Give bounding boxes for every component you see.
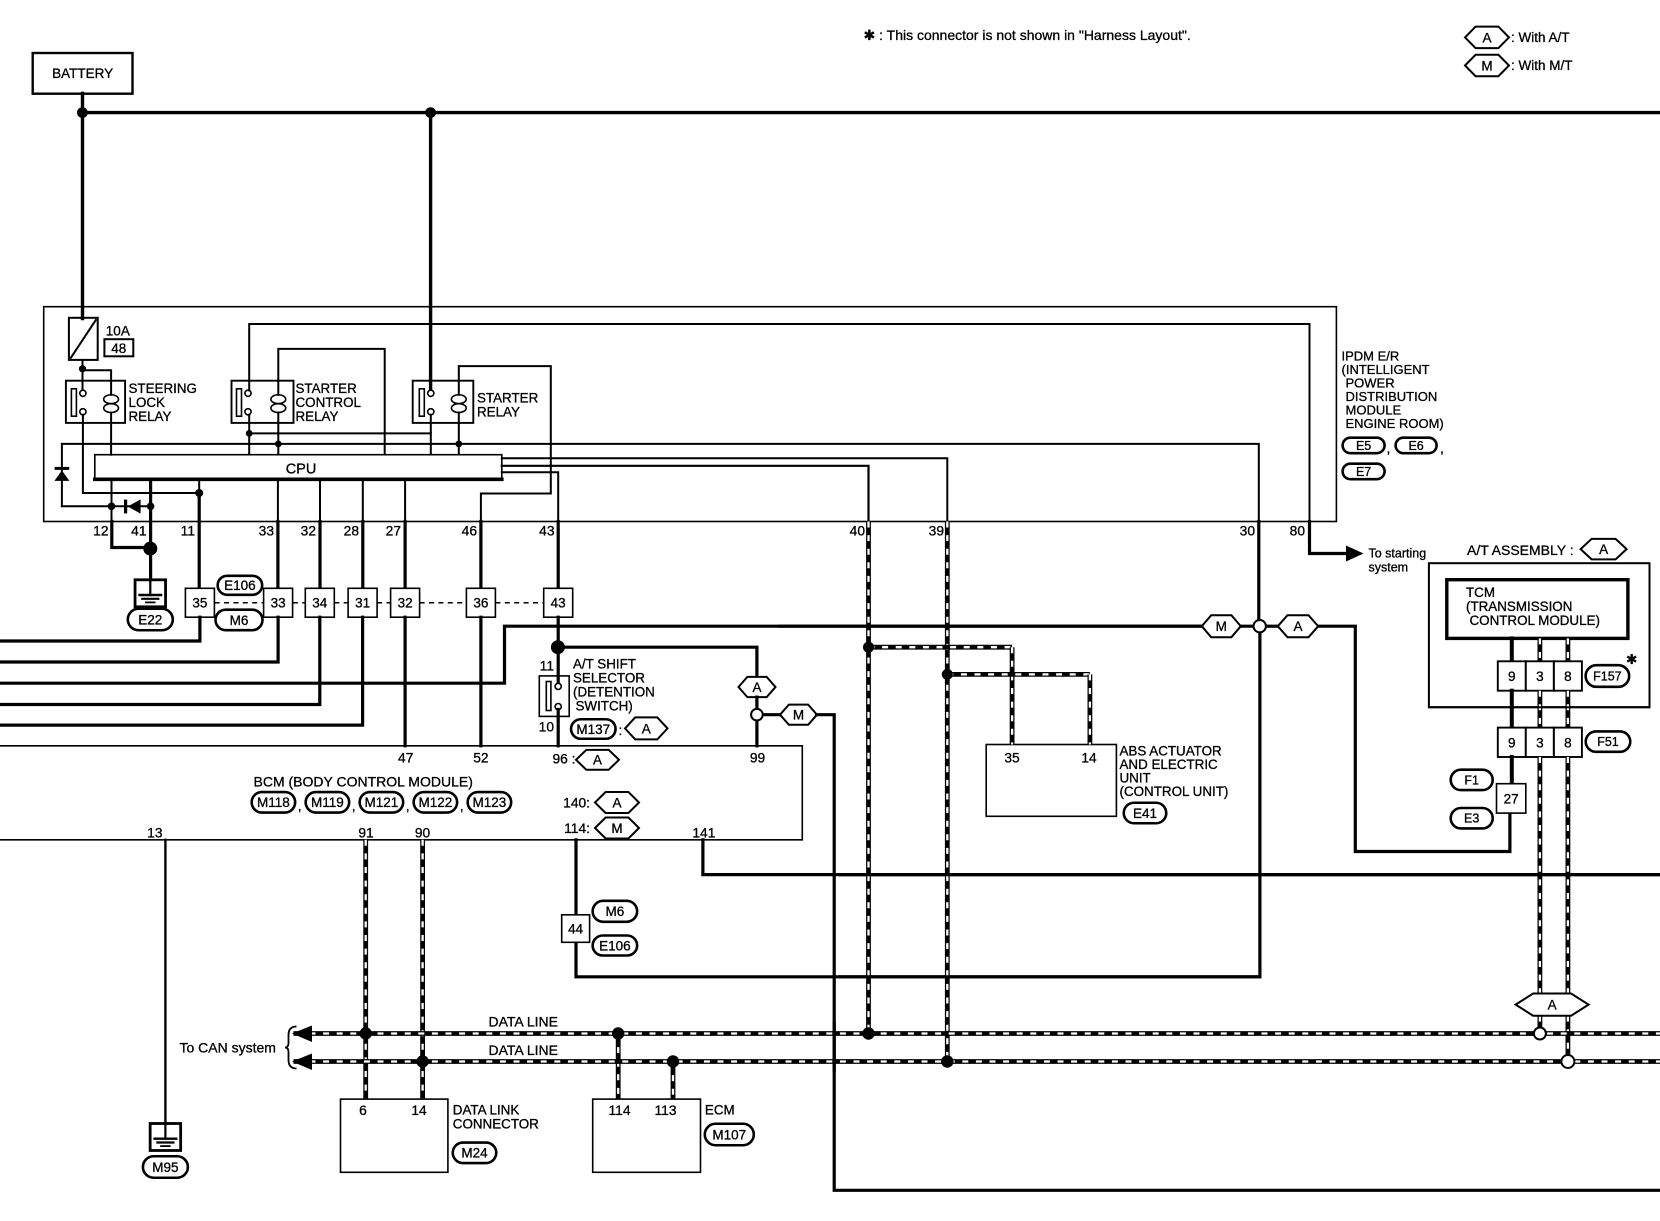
svg-text:A: A [1599,542,1608,557]
connector M6 lower [593,901,638,922]
svg-text:E7: E7 [1356,465,1371,479]
connector M121 [360,792,404,813]
connector E106 lower [593,936,638,956]
node line2 IPDM 39 [941,1055,953,1067]
wire BCM pin 13 to ground M95 [164,840,166,1124]
wire connector 33 to left [0,617,278,662]
hexagon A branch 99 [739,677,776,697]
DATA LINE 1 CAN [294,1031,1660,1036]
svg-text:DATA LINK: DATA LINK [453,1103,520,1118]
wire CPU pin 40 horizontal [502,466,869,522]
wire BCM pin 91 CAN to DLC 6 [363,840,368,1099]
svg-text:E3: E3 [1464,812,1479,826]
node line2 DLC 14 [416,1055,428,1067]
legend hexagon A = With A/T [1465,27,1509,48]
svg-text:,: , [352,798,356,814]
svg-text:90: 90 [415,826,431,841]
TCM box [1447,580,1628,639]
svg-text:system: system [1369,561,1409,575]
connector E5 [1343,438,1385,454]
svg-text:A: A [1482,30,1491,45]
wire IPDM pin 40 CAN [866,522,871,1034]
svg-text:M119: M119 [311,795,344,810]
svg-text:,: , [1387,440,1391,456]
redraw M/T branch over data lines [833,1024,836,1070]
node line1 DLC 6 [360,1027,372,1039]
svg-text:To starting: To starting [1369,547,1427,561]
arrow to CAN system line 2 [293,1054,311,1069]
svg-text:27: 27 [1504,791,1519,806]
svg-text:10: 10 [539,720,555,735]
svg-text:43: 43 [539,524,555,539]
can stub circle trunk [1254,620,1266,632]
svg-text:A: A [1293,619,1302,634]
wire pin 41 to ground E22 [149,506,152,580]
can stub circle TCM 3 on line 1 [1534,1028,1546,1040]
connector E106 top [218,576,263,595]
wire F51 pin 9 to connector 27 [1510,757,1514,784]
wire BCM pin 114 via connector 44 [576,840,1260,977]
node fuse output [82,360,84,390]
ECM box [593,1099,701,1172]
wire pin 46 to connector 36 [479,522,482,589]
svg-text:39: 39 [929,524,945,539]
svg-text:M6: M6 [606,904,625,919]
wire BCM pin 141 [703,840,1660,875]
svg-text:27: 27 [386,524,401,539]
svg-text:114: 114 [609,1103,631,1118]
wire starter control relay contact to CPU [248,415,250,455]
svg-text:44: 44 [568,922,584,937]
IPDM E/R box [44,307,1337,522]
wire BCM pin 90 CAN to DLC 14 [420,840,425,1099]
connector box 33 [264,588,293,617]
wire pin 11 to connector 35 [198,493,201,588]
svg-text:M95: M95 [152,1160,178,1175]
svg-text:14: 14 [411,1103,427,1118]
connector F157 oval [1586,665,1630,687]
svg-text:CONTROL MODULE): CONTROL MODULE) [1470,613,1600,628]
wire starter relay contact to CPU [430,415,432,455]
wire connector 36 to BCM pin 52 [479,617,482,746]
svg-text:: With A/T: : With A/T [1511,30,1570,45]
svg-text:M118: M118 [257,795,290,810]
connector F51 row [1498,728,1526,757]
wire contact branch to starter relay output [249,432,431,434]
wire diode net horizontal to pin 30 [62,444,1259,522]
arrow to CAN system line 1 [293,1026,311,1041]
svg-text:A/T SHIFT: A/T SHIFT [573,657,636,672]
hexagon A trunk [1278,615,1318,637]
dashed link connector row [215,602,264,604]
svg-text:(DETENTION: (DETENTION [573,685,655,700]
svg-text:E5: E5 [1356,439,1371,453]
svg-text:48: 48 [111,341,126,356]
wire CPU pin 32 [319,479,321,521]
svg-text:LOCK: LOCK [129,395,166,410]
node diode line pin 12 [108,503,116,511]
node battery bus starter feed [425,107,436,118]
connector M118 [252,792,296,813]
svg-text:99: 99 [750,750,766,765]
svg-text:12: 12 [93,524,108,539]
svg-text:✱ : This connector is not show: ✱ : This connector is not shown in "Harn… [864,27,1191,43]
diode D2 horizontal [62,505,151,507]
svg-text:13: 13 [147,826,163,841]
wire branch to hexagon A [558,647,757,677]
svg-text:114:: 114: [564,821,590,836]
node pin 41 junction [143,542,157,556]
svg-text:M: M [793,708,804,723]
wire connector 32 to BCM pin 47 [404,617,407,746]
wire pin 27 to connector 32 [404,522,407,589]
connector M107 [705,1124,754,1146]
svg-text:DATA LINE: DATA LINE [489,1014,559,1030]
wire CPU pin 11 [198,479,200,493]
wire F157 to F51 pin 9 [1510,691,1514,728]
A/T assembly box [1429,563,1650,707]
svg-text:M122: M122 [419,795,453,810]
svg-text:E106: E106 [224,578,256,593]
svg-text:A: A [612,795,621,810]
wire IPDM pin 39 CAN [945,522,950,1062]
ground E22 [135,580,166,607]
wire CPU pin 12 [111,479,113,521]
svg-text:91: 91 [358,826,373,841]
hexagon M trunk [1202,615,1241,637]
wire battery feed to fuse 48 [81,113,84,319]
svg-text:M: M [611,821,622,836]
svg-text:M6: M6 [230,613,249,628]
connector box 34 [305,588,334,617]
svg-text:BATTERY: BATTERY [52,66,113,81]
svg-text:M24: M24 [461,1146,488,1161]
wire pin 33 to connector 33 [276,522,279,589]
svg-text:CONTROL: CONTROL [296,395,361,410]
connector box 36 [466,588,495,617]
wire battery to bus [81,93,84,112]
wire shift selector pin 10 to BCM pin 96 [557,710,560,746]
wire connector 34 to left [0,617,320,704]
svg-text:32: 32 [301,524,316,539]
fuse 10A 48 [69,318,98,360]
svg-text:DATA LINE: DATA LINE [489,1042,559,1058]
svg-text:E6: E6 [1408,439,1423,453]
battery [33,53,133,94]
connector F157 row [1498,661,1526,690]
svg-text:E106: E106 [599,938,631,953]
hexagon A wide on TCM CAN pair [1516,994,1589,1016]
connector F1 [1451,770,1493,790]
wire circle to hexagon M branch [763,713,782,716]
svg-text:F157: F157 [1593,670,1622,684]
svg-text:M137: M137 [576,722,610,737]
svg-text:,: , [460,798,464,814]
svg-text:28: 28 [344,524,360,539]
wire M/T-A/T trunk from left edge [0,626,1202,683]
svg-text:11: 11 [540,659,554,674]
connector F51 oval [1586,731,1631,751]
connector M6 bottom [216,610,263,631]
wire pin 40 branch to ABS 35 [869,645,1013,650]
can stub circle TCM 8 on line 2 [1561,1055,1574,1068]
connector M119 [306,792,350,813]
svg-text:,: , [298,798,302,814]
svg-text:M107: M107 [712,1127,746,1142]
wire TCM pin 8 CAN [1566,638,1571,661]
svg-text:40: 40 [850,524,866,539]
svg-text:A: A [1548,997,1557,1012]
hexagon M branch to CAN [780,705,817,725]
node starter control relay contact branch [246,430,253,437]
svg-text:6: 6 [359,1103,367,1118]
svg-text:113: 113 [655,1103,677,1118]
svg-text:33: 33 [271,596,286,611]
svg-text:RELAY: RELAY [129,409,172,424]
starter relay [413,381,474,423]
brace to CAN system [285,1027,297,1069]
svg-text:41: 41 [131,524,146,539]
svg-text:46: 46 [462,524,478,539]
wire pin 28 to connector 31 [361,522,364,589]
wire pin 80 to starting system [1310,522,1348,554]
wire pin 12 below IPDM joining pin 41 [112,522,151,548]
ground M95 [150,1124,181,1151]
svg-text:47: 47 [398,750,413,765]
svg-text:3: 3 [1536,735,1544,750]
wire starter control relay contact feed from pin 80 net [249,324,1309,522]
svg-text:35: 35 [1004,750,1020,765]
svg-text:30: 30 [1240,524,1256,539]
wire pin 43 to connector 43 [557,522,560,589]
wire connector 35 to left [0,617,200,641]
svg-text:52: 52 [473,750,488,765]
svg-text:43: 43 [551,596,566,611]
wire circle to BCM pin 99 [755,720,758,746]
svg-text:SELECTOR: SELECTOR [573,671,645,686]
svg-text:10A: 10A [106,324,130,339]
svg-text:STEERING: STEERING [129,381,197,396]
connector E3 [1451,808,1493,828]
wire M/T branch vertical to circle [1258,633,1261,977]
svg-text:8: 8 [1564,735,1572,750]
svg-text:36: 36 [473,596,488,611]
svg-text:ENGINE ROOM): ENGINE ROOM) [1346,416,1444,431]
svg-text:RELAY: RELAY [296,409,339,424]
wire fuse to steering lock relay coil [83,370,112,381]
svg-text:A/T ASSEMBLY :: A/T ASSEMBLY : [1467,542,1574,558]
wire starter control relay coil loop to CPU [278,349,384,455]
svg-text:A: A [752,680,761,695]
svg-text:CONNECTOR: CONNECTOR [453,1117,539,1132]
connector box 43 [544,588,573,617]
wire starter relay coil loop to pin 46 [459,366,551,521]
connector box 32 [391,588,420,617]
svg-text:M: M [1481,58,1492,73]
connector E6 [1396,438,1437,454]
CPU box [95,455,502,480]
wire connector 31 to left [0,617,363,725]
svg-text:8: 8 [1564,669,1572,684]
connector box 35 [185,588,214,617]
connector E22 [128,609,173,631]
svg-text:SWITCH): SWITCH) [576,699,633,714]
svg-text:33: 33 [259,524,275,539]
node battery bus left [77,107,88,118]
diode D1 vertical [61,444,63,506]
node line2 ECM 113 [667,1055,679,1067]
connector M123 [468,792,512,813]
wire ECM 114 CAN [616,1034,621,1100]
wire IPDM pin 30 to circle [1257,522,1260,621]
node starter relay coil on diode net [455,441,462,448]
svg-text:E22: E22 [138,612,162,627]
wire starter relay coil to CPU [458,423,460,455]
svg-text:140:: 140: [563,796,590,811]
wire hexagon A to circle [755,697,758,709]
svg-text:32: 32 [398,596,413,611]
connector M95 [143,1156,188,1178]
svg-text:9: 9 [1508,735,1516,750]
wire steering lock coil to CPU [110,423,112,455]
wire hexagon M to bottom right [817,715,1660,1191]
svg-text:3: 3 [1536,669,1544,684]
svg-text:BCM (BODY CONTROL MODULE): BCM (BODY CONTROL MODULE) [254,774,473,790]
wire CPU pin 41 [149,479,152,506]
DATA LINE 2 CAN [294,1059,1660,1064]
data link connector box [341,1099,448,1172]
starter control relay [232,381,294,423]
svg-text::: : [619,723,623,738]
svg-text:CPU: CPU [286,462,317,478]
svg-text:(TRANSMISSION: (TRANSMISSION [1466,599,1572,614]
svg-text:,: , [406,798,410,814]
wire pin 39 branch to ABS 14 [947,672,1090,677]
svg-text:✱: ✱ [1626,652,1637,667]
connector box 31 [348,588,377,617]
wire CPU pin 39 horizontal [502,458,948,521]
wire TCM pin 3 CAN [1538,638,1543,661]
svg-text:M: M [1216,619,1227,634]
wire connector 43 to shift selector [557,617,560,683]
svg-text:M123: M123 [473,795,507,810]
svg-text:31: 31 [355,596,370,611]
wire CPU pin 28 [362,479,364,521]
svg-text:9: 9 [1508,669,1516,684]
connector box 27 [1497,784,1526,813]
node line1 IPDM 40 [862,1027,874,1039]
node shift selector branch [551,640,565,654]
connector E41 [1124,803,1167,824]
svg-text:F51: F51 [1597,735,1619,749]
battery bus wire [81,111,1659,114]
svg-text:80: 80 [1290,524,1306,539]
svg-text:To CAN system: To CAN system [180,1040,276,1056]
redraw trunk over CAN [780,625,1202,628]
wire CPU pin 27 [404,479,406,521]
svg-text:14: 14 [1081,750,1097,765]
svg-text:96 :: 96 : [552,751,575,766]
wire TCM pin 9 to F157 [1510,638,1514,661]
svg-text:STARTER: STARTER [477,391,539,406]
legend hexagon M = With M/T [1465,55,1509,76]
svg-text:11: 11 [181,524,195,539]
svg-text:A: A [593,753,602,768]
wire battery feed to starter relay [429,113,432,389]
A/T shift selector detention switch [539,676,569,717]
svg-text:(CONTROL UNIT): (CONTROL UNIT) [1120,784,1229,799]
connector M137 with hexagon A [571,719,616,739]
svg-text:STARTER: STARTER [296,381,358,396]
node pin 40 branch [863,642,874,653]
wire steering lock contact to pin 11 net [83,415,199,493]
steering lock relay [66,381,125,423]
node pin 11 steering contact junction [195,489,203,497]
svg-text:M121: M121 [365,795,399,810]
wire starter control relay coil to CPU [277,423,279,455]
svg-text:,: , [1440,440,1444,456]
node line1 ECM 114 [612,1027,624,1039]
svg-text:ECM: ECM [705,1103,735,1118]
svg-text:E41: E41 [1133,806,1157,821]
svg-text:A: A [642,721,651,736]
node starter control relay coil on diode net [275,441,282,448]
svg-text:34: 34 [312,596,328,611]
connector M122 [414,792,458,813]
wire CPU pin 33 [277,479,279,521]
wire pin 32 to connector 34 [318,522,321,589]
BCM box [0,746,802,840]
svg-text:TCM: TCM [1466,585,1495,600]
svg-text:35: 35 [192,596,207,611]
node pin 39 branch [942,669,953,680]
connector E7 [1343,464,1385,480]
node diode line pin 41 [147,503,155,511]
svg-text:: With M/T: : With M/T [1511,58,1573,73]
connector box 44 [562,915,590,943]
ABS actuator box [986,745,1116,817]
wire trunk to TCM [1241,625,1254,628]
connector M24 [453,1143,497,1164]
svg-text:F1: F1 [1464,773,1479,787]
wire CPU pin 43 horizontal [502,472,558,521]
wire ECM 113 CAN [671,1062,676,1100]
svg-text:RELAY: RELAY [477,405,520,420]
